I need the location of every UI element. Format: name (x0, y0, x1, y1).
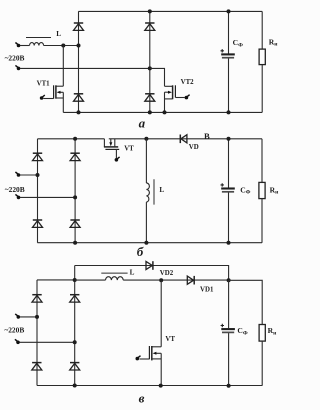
junction: Cf bottom (a) (227, 110, 231, 114)
svg-text:VT2: VT2 (181, 79, 195, 86)
junction: input1-left column (v) (35, 315, 39, 319)
VT gate drive terminal (b) (115, 157, 120, 162)
wire: top output rail (a) (78, 10, 262, 12)
svg-text:в: в (139, 390, 145, 405)
wire: VT source stub (b) (114, 139, 116, 147)
VT channel bar (v) (151, 346, 153, 360)
bridge diode upper-left (b) (33, 153, 43, 160)
resistor Rn (b) (259, 182, 265, 198)
junction: leg2 bottom (a) (148, 110, 152, 114)
VT substrate arrowhead (b) (109, 142, 112, 146)
wire: VT2 drain stub (165, 85, 173, 87)
bridge diode lower-right (b) (70, 220, 80, 227)
wire: Cf column lower (a) (228, 59, 230, 113)
svg-text:B: B (204, 131, 210, 141)
input terminal 2 (b) (15, 194, 20, 199)
junction: right column top (b) (73, 137, 77, 141)
wire: input line 2 (a) (20, 67, 150, 69)
junction: input2-right column (b) (73, 195, 77, 199)
VT2 channel bar (172, 85, 174, 99)
junction node: L/VT/VD1 (v) (159, 278, 163, 282)
wire: Cf column upper (b) (228, 139, 230, 188)
input terminal 1 (v) (15, 314, 20, 319)
input terminal 2 (v) (15, 339, 20, 344)
transistor VT1 (MOSFET) (37, 46, 64, 113)
wire: Cf column lower (b) (228, 193, 230, 243)
svg-text:~220В: ~220В (5, 54, 25, 63)
wire: Rn drop (b) (261, 139, 263, 183)
wire: bridge right column (b) (74, 139, 76, 243)
bridge diode upper-right (b) (70, 153, 80, 160)
circuit v (bridge + boost with bypass diode) (4, 261, 277, 405)
junction: Cf bottom (v) (227, 384, 231, 388)
wire: Cf column lower (v) (228, 333, 230, 386)
diode lower-right (a) (145, 94, 155, 101)
junction: VT1 drain tap (a) (61, 44, 65, 48)
inductor L winding (b) (146, 183, 149, 202)
VT1 gate bar (53, 85, 55, 98)
wire: inductor output to bridge (a) (44, 45, 79, 47)
wire: VT1 gate lead (44, 98, 54, 100)
VT1 substrate stub (58, 91, 63, 93)
wire: VT source stub (v) (152, 358, 161, 360)
bridge diode upper-right (v) (70, 295, 80, 302)
junction: bridge/bypass tap (v) (73, 278, 77, 282)
wire: VT2 source stub (165, 98, 173, 100)
VT substrate stub (v) (156, 352, 161, 354)
wire: VT1 drain lead (62, 46, 64, 87)
wire: input line 1 (b) (20, 174, 38, 176)
diode VD (b) (180, 135, 187, 144)
wire: bridge left column (v) (36, 280, 38, 386)
transistor VT2 (MOSFET) (150, 68, 194, 112)
wire: bridge left column (b) (37, 139, 39, 243)
wire: bridge top rail to VT (b) (38, 138, 105, 140)
wire: Rn column upper (a) (261, 11, 263, 49)
capacitor Cf (v) (221, 324, 235, 333)
svg-text:VT: VT (124, 145, 134, 152)
wire: VT1 source stub (56, 97, 63, 99)
svg-text:а: а (139, 116, 146, 131)
svg-text:VD1: VD1 (200, 287, 214, 294)
svg-text:L: L (130, 268, 135, 276)
diode upper-right (a) (145, 23, 155, 30)
input terminal 2 (a) (15, 65, 20, 70)
svg-text:L: L (56, 30, 61, 38)
wire: VT drain stub (b) (103, 139, 105, 147)
wire: VT drain stub (v) (152, 346, 161, 348)
inductor L core bar (v) (101, 272, 127, 274)
wire: bridge right column + bypass riser (v) (74, 266, 76, 386)
junction: leg2 top rail (a) (148, 9, 152, 13)
VT gate bar (b) (105, 148, 119, 150)
inductor L winding (v) (106, 277, 124, 280)
VT channel bar (b) (104, 146, 118, 148)
wire: VT gate lead (b) (115, 149, 117, 158)
wire: VT2 gate lead (175, 97, 184, 99)
wire: Rn column lower (v) (261, 341, 263, 386)
junction: right column bottom (v) (73, 384, 77, 388)
transistor VT (b, MOSFET) (104, 139, 134, 162)
wire: Rn column lower (b) (261, 199, 263, 243)
wire: L column upper (b) (145, 139, 147, 183)
wire: input line 2 (v) (20, 341, 75, 343)
diode VD1 (v) (187, 276, 194, 285)
svg-text:VT1: VT1 (37, 80, 51, 87)
VT2 substrate stub (165, 91, 171, 93)
wire: output to Rn (v) (229, 280, 263, 324)
wire: bottom return rail (v) (37, 385, 262, 387)
VT substrate stub (b) (110, 139, 112, 143)
bridge diode upper-left (v) (32, 295, 42, 302)
VT substrate arrowhead (v) (153, 352, 157, 355)
inductor L core bar (a) (26, 37, 51, 39)
diode upper-left (a) (74, 23, 84, 30)
junction: leg2 mid (a) (148, 66, 152, 70)
wire: VT drain lead (v) (160, 280, 162, 347)
circuit b (bridge + boost converter) (5, 131, 279, 259)
junction: VT2 source bottom (a) (163, 110, 167, 114)
junction: output node (v) (227, 278, 231, 282)
wire: diode leg 1 column (a) (78, 11, 80, 112)
junction: leg1 bottom (a) (77, 110, 81, 114)
svg-text:б: б (137, 244, 144, 259)
wire: VT2 source lead to rail (164, 92, 166, 112)
svg-text:VD2: VD2 (160, 270, 174, 277)
junction: Cf top rail (a) (227, 9, 231, 13)
svg-text:CФ: CФ (237, 326, 247, 336)
VT1 substrate arrowhead (57, 91, 61, 94)
wire: L column lower (b) (145, 202, 147, 243)
wire: bridge top rail (v) (37, 279, 75, 281)
wire: inductor to VD1 to output node (v) (123, 279, 228, 281)
svg-text:Rн: Rн (269, 38, 278, 48)
svg-text:VT: VT (165, 336, 175, 343)
VT gate bar (v) (148, 346, 150, 359)
svg-text:Rн: Rн (268, 326, 277, 336)
junction node: switch/L/VD (b) (144, 137, 148, 141)
diode VD2 (v) (146, 261, 153, 270)
VT2 gate bar (174, 85, 176, 97)
VT2 substrate arrowhead (168, 91, 172, 94)
VT2 gate drive terminal (185, 95, 190, 100)
junction: VT source bottom (v) (159, 384, 163, 388)
inductor L core bar (b) (153, 179, 155, 204)
junction: input1-left column (b) (36, 173, 40, 177)
wire: Rn column lower (a) (261, 65, 263, 113)
wire: Cf column upper (v) (228, 280, 230, 328)
input terminal 1 (a) (15, 43, 20, 48)
VT1 channel bar (55, 85, 57, 98)
input terminal 1 (b) (15, 172, 20, 177)
wire: input line 1 to inductor (a) (20, 45, 30, 47)
wire: VT2 drain link from bridge (150, 68, 165, 86)
svg-text:L: L (159, 186, 164, 194)
wire: VT source lead (v) (160, 353, 162, 385)
bridge diode lower-right (v) (70, 363, 80, 370)
svg-text:CФ: CФ (233, 38, 243, 48)
inductor L winding (a) (30, 43, 44, 46)
wire: VT1 source lead to rail (62, 92, 64, 112)
junction: Cf top (b) (227, 137, 231, 141)
resistor Rn (a) (259, 49, 265, 65)
wire: input line 2 (b) (20, 196, 75, 198)
svg-text:Rн: Rн (270, 185, 279, 195)
svg-text:~220В: ~220В (5, 185, 25, 194)
junction: input2-right column (v) (73, 340, 77, 344)
capacitor Cf (a) (221, 49, 235, 58)
bridge diode lower-left (v) (32, 363, 42, 370)
wire: input line 1 (v) (20, 316, 37, 318)
junction: right column bottom (b) (73, 241, 77, 245)
wire: VT gate lead (v) (139, 358, 149, 360)
VT1 gate drive terminal (40, 95, 45, 100)
junction: Cf bottom (b) (227, 241, 231, 245)
wire: rail from VT through VD to output (b) (109, 138, 262, 140)
wire: diode leg 2 column (a) (149, 11, 151, 112)
junction: L bottom (b) (144, 241, 148, 245)
svg-text:CФ: CФ (240, 185, 250, 195)
svg-text:VD: VD (189, 144, 199, 151)
VT gate drive terminal (v) (136, 356, 141, 361)
bridge diode lower-left (b) (33, 220, 43, 227)
wire: bottom return rail (a) (63, 111, 262, 113)
svg-text:~220В: ~220В (4, 325, 24, 334)
capacitor Cf (b) (221, 183, 235, 192)
junction: leg1 mid (a) (77, 44, 81, 48)
wire: bypass line over L (v) (75, 266, 229, 281)
resistor Rn (v) (259, 325, 265, 342)
wire: VT1 drain stub (56, 85, 63, 87)
diode lower-left (a) (74, 94, 84, 101)
wire: bridge to inductor (v) (75, 279, 106, 281)
circuit a (half-bridge rectifier-converter) (5, 9, 279, 130)
wire: Cf column upper (a) (228, 11, 230, 53)
wire: bottom return rail (b) (37, 242, 262, 244)
transistor VT (v, MOSFET) (136, 280, 176, 385)
